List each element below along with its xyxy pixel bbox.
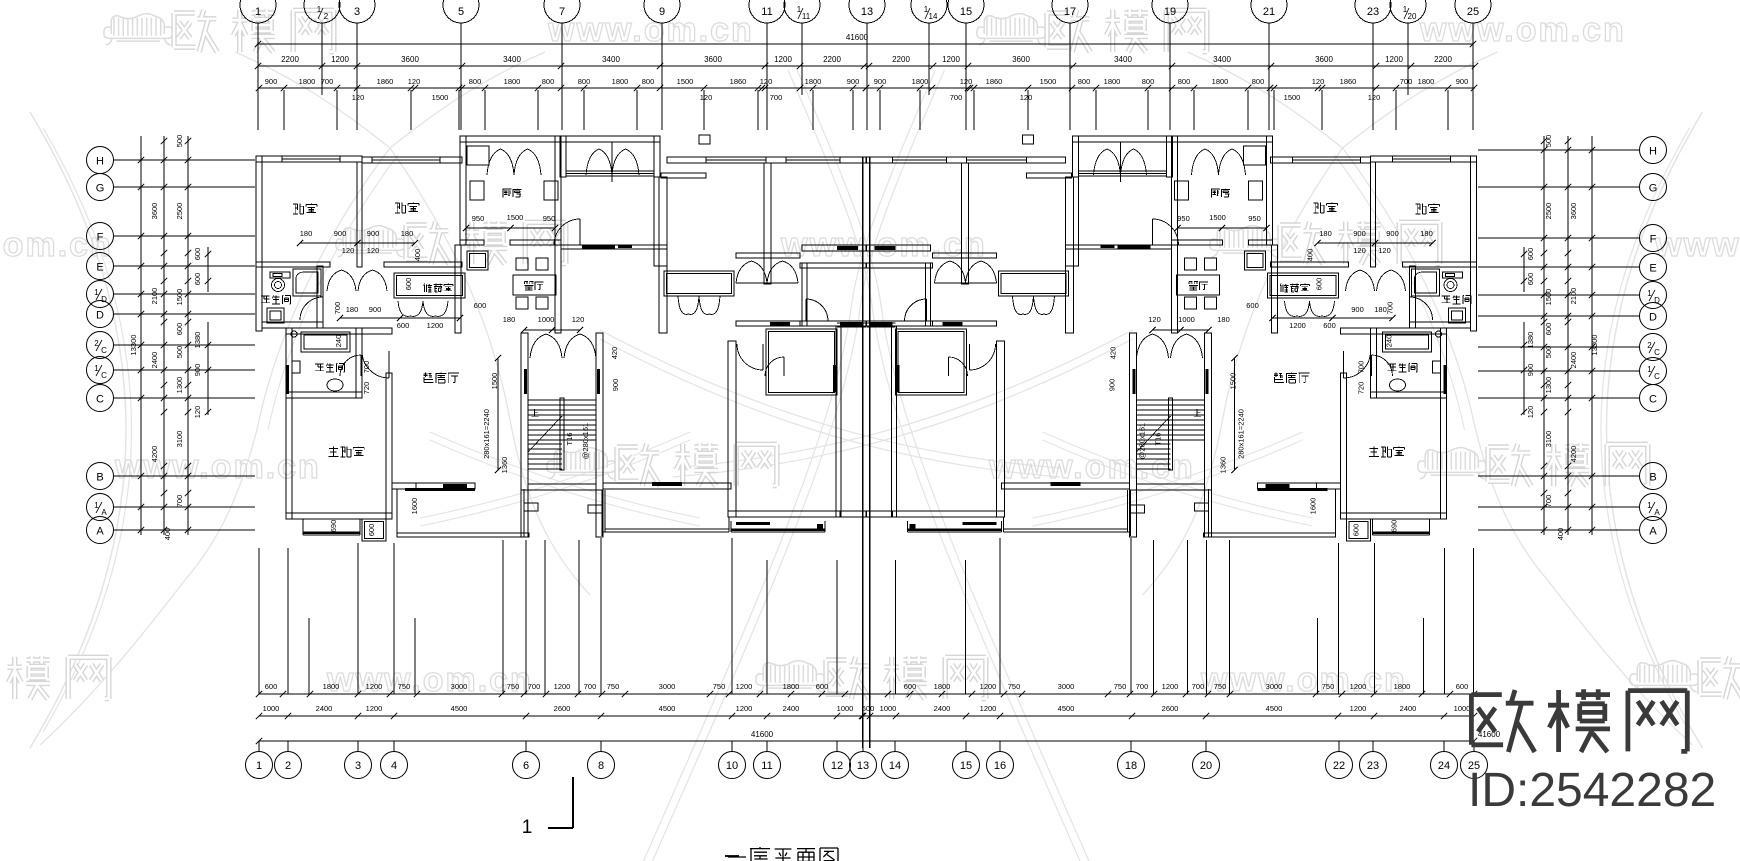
door arch bedroom1 bbox=[327, 270, 356, 291]
exterior wall top bedroom1 bbox=[256, 156, 362, 162]
svg-text:800: 800 bbox=[469, 77, 482, 86]
left grid bubble E bbox=[87, 253, 114, 280]
svg-text:600: 600 bbox=[265, 682, 278, 691]
bottom grid bubble stem 15 bbox=[965, 741, 967, 752]
top grid line 1/14 bbox=[928, 23, 930, 95]
svg-text:A: A bbox=[1649, 526, 1657, 538]
wall L2 bedrooms bottom (mirror) bbox=[933, 253, 997, 258]
top grid bubble 1/14 bbox=[911, 0, 947, 23]
svg-text:4200: 4200 bbox=[150, 446, 159, 463]
svg-text:2: 2 bbox=[324, 12, 329, 21]
wall master bottom (mirror) bbox=[1341, 513, 1447, 519]
svg-text:3600: 3600 bbox=[1012, 55, 1030, 64]
dining table bbox=[513, 275, 556, 295]
wall bathroom2 right (mirror) bbox=[1371, 328, 1377, 398]
svg-text:3600: 3600 bbox=[1315, 55, 1333, 64]
svg-text:600: 600 bbox=[1526, 248, 1535, 261]
svg-text:1860: 1860 bbox=[377, 77, 394, 86]
bottom grid bubble stem 14 bbox=[894, 741, 896, 752]
svg-text:1800: 1800 bbox=[1418, 77, 1435, 86]
svg-text:www.om.cn: www.om.cn bbox=[1419, 11, 1626, 49]
label bedroom2 bbox=[395, 203, 405, 213]
wall living bottom w bbox=[392, 483, 416, 489]
left grid line C bbox=[113, 397, 255, 399]
svg-text:1: 1 bbox=[255, 6, 261, 18]
svg-text:240: 240 bbox=[334, 335, 343, 348]
bathtub bbox=[301, 332, 350, 352]
svg-text:2100: 2100 bbox=[1569, 288, 1578, 305]
window dark west bbox=[286, 365, 289, 394]
svg-text:120: 120 bbox=[760, 77, 773, 86]
window living bottom bbox=[416, 483, 475, 489]
window dark closet w (mirror) bbox=[943, 322, 963, 326]
svg-text:600: 600 bbox=[862, 704, 875, 713]
label bathroom2 (mirror) bbox=[1388, 364, 1397, 371]
porch sill window bbox=[566, 171, 654, 176]
wall kitchen right (mirror) bbox=[1172, 136, 1178, 333]
bottom grid bubble 18 bbox=[1118, 752, 1145, 779]
closet C (mirror) bbox=[896, 329, 967, 395]
watermark center flat cross arcs bbox=[600, 330, 1060, 468]
svg-text:1500: 1500 bbox=[175, 289, 184, 306]
top grid line 1/11 bbox=[801, 23, 803, 95]
svg-text:1600: 1600 bbox=[410, 498, 419, 515]
top grid bubble 1/20 bbox=[1390, 0, 1426, 23]
svg-text:700: 700 bbox=[770, 93, 783, 102]
svg-text:240: 240 bbox=[1385, 335, 1394, 348]
stair entry arch w (mirror) bbox=[1171, 334, 1203, 358]
svg-text:7: 7 bbox=[559, 6, 565, 18]
center grid line b (mirror) bbox=[862, 157, 864, 748]
left grid bubble D bbox=[87, 301, 114, 328]
svg-text:1500: 1500 bbox=[432, 93, 449, 102]
svg-text:2600: 2600 bbox=[554, 704, 571, 713]
svg-text:180: 180 bbox=[401, 229, 414, 238]
svg-text:900: 900 bbox=[334, 229, 347, 238]
top grid line 3 bbox=[356, 23, 358, 130]
wall master right (mirror) bbox=[1341, 373, 1347, 519]
watermark row4 sofa-logo far-right bbox=[1640, 665, 1687, 683]
svg-text:180: 180 bbox=[1319, 229, 1332, 238]
top grid line 1/2 bbox=[321, 23, 323, 95]
svg-text:1500: 1500 bbox=[1229, 373, 1238, 390]
svg-text:6: 6 bbox=[523, 760, 529, 772]
svg-text:A: A bbox=[101, 508, 107, 517]
watermark X arcs left bbox=[235, 52, 390, 148]
svg-text:A: A bbox=[1654, 508, 1660, 517]
svg-text:A: A bbox=[96, 526, 104, 538]
door arch L2 bedB bbox=[767, 261, 798, 283]
svg-text:900: 900 bbox=[874, 77, 887, 86]
door arch storage L2 w bbox=[678, 296, 699, 314]
right grid bubble C bbox=[1640, 385, 1667, 412]
top grid bubble 7 bbox=[544, 0, 580, 23]
right grid bubble A bbox=[1640, 517, 1667, 544]
label dining bbox=[524, 282, 533, 291]
bottom grid bubble stem 13 bbox=[862, 741, 864, 752]
svg-text:800: 800 bbox=[1078, 77, 1091, 86]
label bathroom1 (mirror) bbox=[1442, 296, 1451, 303]
closet wall top (mirror) bbox=[867, 263, 933, 268]
svg-text:3: 3 bbox=[354, 6, 360, 18]
left grid bubble 1/C bbox=[87, 357, 114, 384]
label living (mirror) bbox=[1274, 373, 1284, 383]
wall entry (mirror) bbox=[1066, 245, 1172, 249]
svg-text:900: 900 bbox=[611, 379, 620, 392]
svg-text:23: 23 bbox=[1367, 6, 1379, 18]
porch door jamb bbox=[611, 142, 613, 182]
label storage bbox=[424, 284, 433, 293]
wall kitchen bottom west (mirror) bbox=[1249, 240, 1273, 245]
svg-text:600: 600 bbox=[1352, 524, 1361, 537]
wall above closet (mirror) bbox=[867, 245, 931, 251]
right dimension ticks bbox=[1589, 147, 1595, 153]
svg-text:20: 20 bbox=[1408, 12, 1417, 21]
svg-text:600: 600 bbox=[367, 524, 376, 537]
bath cabinet (mirror) bbox=[1433, 361, 1441, 373]
balcony L2 bbox=[730, 521, 732, 532]
svg-text:120: 120 bbox=[960, 77, 973, 86]
bottom grid bubble stem 24 bbox=[1443, 741, 1445, 752]
svg-text:14: 14 bbox=[889, 760, 901, 772]
svg-text:2: 2 bbox=[285, 760, 291, 772]
svg-text:3000: 3000 bbox=[1058, 682, 1075, 691]
wall kitchen bottom east (mirror) bbox=[1172, 240, 1223, 245]
wall bedroom1/bedroom2 (mirror) bbox=[1371, 162, 1376, 267]
fridge kitchen (mirror) bbox=[1244, 146, 1266, 165]
bottom grid bubble 11 bbox=[754, 752, 781, 779]
door arch bedroom2 (mirror) bbox=[1346, 270, 1375, 291]
svg-text:900: 900 bbox=[847, 77, 860, 86]
svg-text:750: 750 bbox=[713, 682, 726, 691]
bottom grid bubble 4 bbox=[381, 752, 408, 779]
bottom grid bubble stem 25 bbox=[1473, 741, 1475, 752]
bottom grid bubble stem 20 bbox=[1205, 741, 1207, 752]
storage room (mirror) bbox=[1268, 273, 1339, 298]
door arc closet (mirror) bbox=[926, 299, 928, 321]
svg-text:120: 120 bbox=[342, 246, 355, 255]
svg-text:@280x161: @280x161 bbox=[1138, 423, 1147, 459]
wall L2 bedA/bedB bbox=[764, 163, 771, 284]
watermark row1 sofa-logo mid bbox=[987, 18, 1034, 36]
right grid bubble 1/C bbox=[1640, 358, 1667, 385]
terrace L2 right edge (mirror) bbox=[1003, 517, 1005, 532]
stairwell wall right lower (mirror) bbox=[1130, 490, 1137, 537]
exterior wall top L2 bbox=[667, 157, 866, 163]
center grid line a (mirror) bbox=[869, 157, 871, 748]
svg-text:2600: 2600 bbox=[1162, 704, 1179, 713]
window L2 bedB bbox=[786, 157, 840, 163]
wall under L2 bedrooms bbox=[736, 321, 800, 326]
wall kitchen right bbox=[555, 136, 561, 333]
entry threshold b bbox=[618, 245, 632, 248]
bottom grid bubble 23 bbox=[1360, 752, 1387, 779]
top grid bubble 1 bbox=[240, 0, 276, 23]
door arc closet C (mirror) bbox=[948, 357, 950, 376]
label storage (mirror) bbox=[1280, 284, 1289, 293]
terrace floor edge (mirror) bbox=[1204, 533, 1336, 537]
label bedroom1 bbox=[293, 204, 303, 214]
svg-text:3400: 3400 bbox=[1114, 55, 1132, 64]
svg-text:1200: 1200 bbox=[736, 704, 753, 713]
svg-text:180: 180 bbox=[1420, 229, 1433, 238]
svg-text:500: 500 bbox=[175, 346, 184, 359]
window bedroom1 top bbox=[282, 156, 340, 162]
svg-text:3100: 3100 bbox=[175, 431, 184, 448]
right grid line 1/A bbox=[1478, 506, 1640, 508]
svg-text:3400: 3400 bbox=[503, 55, 521, 64]
exterior wall kitchen top bbox=[460, 136, 561, 142]
svg-text:120: 120 bbox=[1526, 406, 1535, 419]
svg-text:950: 950 bbox=[472, 214, 485, 223]
bedroomC wall left (mirror) bbox=[997, 341, 1005, 517]
window dark L2 living (mirror) bbox=[1051, 482, 1081, 486]
svg-text:1200: 1200 bbox=[1162, 682, 1179, 691]
svg-text:10: 10 bbox=[726, 760, 738, 772]
top dimension line row3 bbox=[258, 87, 1475, 89]
wall L2 west bbox=[659, 177, 667, 333]
svg-text:280x161=2240: 280x161=2240 bbox=[1237, 409, 1246, 459]
svg-text:120: 120 bbox=[193, 406, 202, 419]
window dark living s (mirror) bbox=[1266, 484, 1290, 488]
wall bathroom2 top bbox=[286, 328, 392, 334]
bottom grid bubble stem 10 bbox=[731, 741, 733, 752]
door arch kitchen west (mirror) bbox=[1219, 149, 1246, 175]
stair entry arch e (mirror) bbox=[1137, 334, 1169, 358]
svg-text:120: 120 bbox=[367, 246, 380, 255]
kitchen dim line (mirror) bbox=[1178, 227, 1267, 229]
left grid line A bbox=[113, 529, 255, 531]
svg-text:15: 15 bbox=[960, 760, 972, 772]
chair (mirror) bbox=[1205, 297, 1217, 309]
svg-text:800: 800 bbox=[1142, 77, 1155, 86]
window L2 bedA (mirror) bbox=[967, 157, 1027, 163]
washbasin bathroom2 (mirror) bbox=[1390, 379, 1406, 391]
washbasin bathroom2 bbox=[327, 379, 343, 391]
top grid bubble 23 bbox=[1355, 0, 1391, 23]
label master bedroom bbox=[328, 447, 338, 457]
right grid line H bbox=[1478, 149, 1640, 151]
entry door threshold bbox=[582, 245, 615, 249]
svg-text:1000: 1000 bbox=[837, 704, 854, 713]
svg-text:C: C bbox=[1654, 372, 1660, 381]
svg-text:180: 180 bbox=[1217, 315, 1230, 324]
svg-text:D: D bbox=[96, 310, 104, 322]
svg-text:600: 600 bbox=[404, 278, 413, 291]
svg-text:T16: T16 bbox=[1154, 433, 1163, 446]
svg-text:3: 3 bbox=[355, 760, 361, 772]
storage room bbox=[394, 273, 465, 298]
closet wall left (mirror) bbox=[926, 263, 931, 326]
terrace right edge bbox=[523, 489, 525, 537]
terrace notch bbox=[524, 503, 538, 511]
svg-text:2400: 2400 bbox=[934, 704, 951, 713]
window L2 bedA bbox=[706, 157, 766, 163]
exterior wall west lower bbox=[286, 328, 292, 519]
svg-text:C: C bbox=[1654, 348, 1660, 357]
wall porch right (mirror) bbox=[1073, 136, 1079, 177]
svg-text:4500: 4500 bbox=[1058, 704, 1075, 713]
wall bedrooms bottom east bbox=[384, 262, 462, 267]
right grid line D bbox=[1478, 315, 1640, 317]
porch door jamb (mirror) bbox=[1120, 142, 1122, 182]
wall bedrooms bottom west bbox=[256, 262, 330, 267]
svg-text:2400: 2400 bbox=[1400, 704, 1417, 713]
svg-text:19: 19 bbox=[1164, 6, 1176, 18]
balcony L2 (mirror) bbox=[907, 521, 909, 532]
svg-text:950: 950 bbox=[1248, 214, 1261, 223]
trunk window line a (mirror) bbox=[867, 322, 896, 324]
top grid bubble 19 bbox=[1152, 0, 1188, 23]
bottom grid bubble stem 3 bbox=[357, 741, 359, 752]
center grid line a bbox=[862, 157, 864, 748]
svg-text:600: 600 bbox=[1456, 682, 1469, 691]
svg-text:900: 900 bbox=[1108, 379, 1117, 392]
top grid bubble 11 bbox=[749, 0, 785, 23]
svg-text:1800: 1800 bbox=[912, 77, 929, 86]
right grid bubble D bbox=[1640, 303, 1667, 330]
chair (mirror) bbox=[1185, 297, 1197, 309]
window living bottom (mirror) bbox=[1258, 483, 1317, 489]
svg-text:13: 13 bbox=[861, 6, 873, 18]
top grid line 25 bbox=[1472, 23, 1474, 130]
door arc hall L2 (mirror) bbox=[969, 344, 971, 370]
wall bathroom1 bottom bbox=[262, 322, 323, 328]
svg-text:120: 120 bbox=[1378, 246, 1391, 255]
bottom grid bubble stem 2 bbox=[287, 741, 289, 752]
svg-text:1200: 1200 bbox=[774, 55, 792, 64]
svg-text:5: 5 bbox=[458, 6, 464, 18]
top grid bubble 1/11 bbox=[784, 0, 820, 23]
top grid bubble labels bbox=[255, 5, 1479, 21]
svg-text:17: 17 bbox=[1064, 6, 1076, 18]
top grid bubble 1/2 bbox=[304, 0, 340, 23]
svg-text:400: 400 bbox=[413, 249, 422, 262]
svg-text:600: 600 bbox=[1544, 323, 1553, 336]
balcony master (mirror) bbox=[1372, 519, 1374, 535]
door arc entry (mirror) bbox=[1152, 219, 1154, 245]
right grid line B bbox=[1478, 475, 1640, 477]
svg-text:2400: 2400 bbox=[783, 704, 800, 713]
top grid line 5 bbox=[460, 23, 462, 130]
porch sill window (mirror) bbox=[1079, 171, 1167, 176]
svg-text:750: 750 bbox=[607, 682, 620, 691]
window dark west (mirror) bbox=[1444, 365, 1447, 394]
exterior wall left (mirror) bbox=[1471, 156, 1477, 331]
door arch bedroom2 bbox=[358, 270, 387, 291]
watermark big arc left edge bbox=[30, 112, 126, 748]
svg-text:950: 950 bbox=[543, 214, 556, 223]
right vertical dimension lines bbox=[1524, 136, 1592, 535]
wall dining left lower (mirror) bbox=[1272, 245, 1278, 333]
closet wall top bbox=[800, 263, 866, 268]
chair bbox=[516, 297, 528, 309]
svg-text:400: 400 bbox=[163, 528, 172, 541]
door arch bedroom1 (mirror) bbox=[1377, 270, 1406, 291]
chair bbox=[536, 297, 548, 309]
toilet bathroom1 bbox=[270, 272, 290, 278]
svg-text:800: 800 bbox=[1252, 77, 1265, 86]
svg-text:11: 11 bbox=[761, 6, 772, 18]
top grid line 11 bbox=[766, 23, 768, 130]
bottom grid bubble stem 23 bbox=[1372, 741, 1374, 752]
svg-text:C: C bbox=[101, 346, 107, 355]
svg-text:720: 720 bbox=[1357, 382, 1366, 395]
left grid bubble G bbox=[87, 174, 114, 201]
svg-text:1200: 1200 bbox=[554, 682, 571, 691]
bottom extension lines bbox=[259, 538, 1474, 694]
trunk window line a bbox=[837, 322, 866, 324]
bottom grid bubble 1 bbox=[246, 752, 273, 779]
top grid bubble 17 bbox=[1052, 0, 1088, 23]
left dimension ticks bbox=[138, 157, 144, 163]
terrace L2 left edge a bbox=[601, 490, 603, 536]
right grid line A bbox=[1478, 529, 1640, 531]
window dark L2 living bbox=[652, 482, 682, 486]
svg-text:ID:2542282: ID:2542282 bbox=[1468, 764, 1716, 817]
door arch kitchen west bbox=[487, 149, 514, 175]
svg-text:2200: 2200 bbox=[892, 55, 910, 64]
svg-text:1000: 1000 bbox=[880, 704, 897, 713]
svg-text:T16: T16 bbox=[565, 433, 574, 446]
svg-text:4: 4 bbox=[391, 760, 397, 772]
right grid line 1/C bbox=[1478, 370, 1640, 372]
wall entry bbox=[561, 245, 667, 249]
right grid bubble B bbox=[1640, 463, 1667, 490]
wall porch right bbox=[654, 136, 660, 177]
svg-text:D: D bbox=[101, 295, 107, 304]
svg-text:3600: 3600 bbox=[704, 55, 722, 64]
svg-text:G: G bbox=[96, 183, 105, 195]
svg-text:1360: 1360 bbox=[500, 457, 509, 474]
bottom row2 ticks bbox=[256, 713, 262, 719]
right grid line F bbox=[1478, 237, 1640, 239]
svg-text:420: 420 bbox=[610, 347, 619, 360]
left grid bubble C bbox=[87, 385, 114, 412]
wall bedroom1/bedroom2 bbox=[357, 162, 362, 267]
svg-text:1800: 1800 bbox=[1212, 77, 1229, 86]
terrace L2 right edge bbox=[728, 517, 730, 532]
closet wall bottom bbox=[800, 321, 866, 326]
svg-text:120: 120 bbox=[408, 77, 421, 86]
top grid bubble 15 bbox=[948, 0, 984, 23]
terrace notch (mirror) bbox=[1195, 503, 1209, 511]
svg-text:750: 750 bbox=[1214, 682, 1227, 691]
stairwell wall left (mirror) bbox=[1205, 333, 1212, 490]
terrace right edge (mirror) bbox=[1208, 489, 1210, 537]
entry door threshold (mirror) bbox=[1118, 245, 1151, 249]
top grid bubble 13 bbox=[849, 0, 885, 23]
svg-text:3400: 3400 bbox=[602, 55, 620, 64]
stairwell wall left lower (mirror) bbox=[1205, 490, 1212, 537]
door arc bathroom2 bbox=[360, 355, 362, 376]
exterior wall west lower (mirror) bbox=[1441, 328, 1447, 519]
left grid line 1/D bbox=[113, 293, 255, 295]
door arch L2 bedA (mirror) bbox=[966, 261, 997, 283]
bottom grid bubble stem 6 bbox=[525, 741, 527, 752]
left grid bubble H bbox=[87, 147, 114, 174]
svg-text:400: 400 bbox=[1306, 249, 1315, 262]
svg-text:@280x161: @280x161 bbox=[581, 423, 590, 459]
bedroomC wall left bbox=[728, 341, 736, 517]
svg-text:1800: 1800 bbox=[504, 77, 521, 86]
exterior wall top bedroom1 (mirror) bbox=[1371, 156, 1477, 162]
svg-text:www.om.cn: www.om.cn bbox=[114, 448, 321, 486]
hall dim line bbox=[340, 317, 460, 319]
svg-text:1300: 1300 bbox=[1544, 377, 1553, 394]
bottom grid bubble 22 bbox=[1326, 752, 1353, 779]
svg-text:120: 120 bbox=[1020, 93, 1033, 102]
